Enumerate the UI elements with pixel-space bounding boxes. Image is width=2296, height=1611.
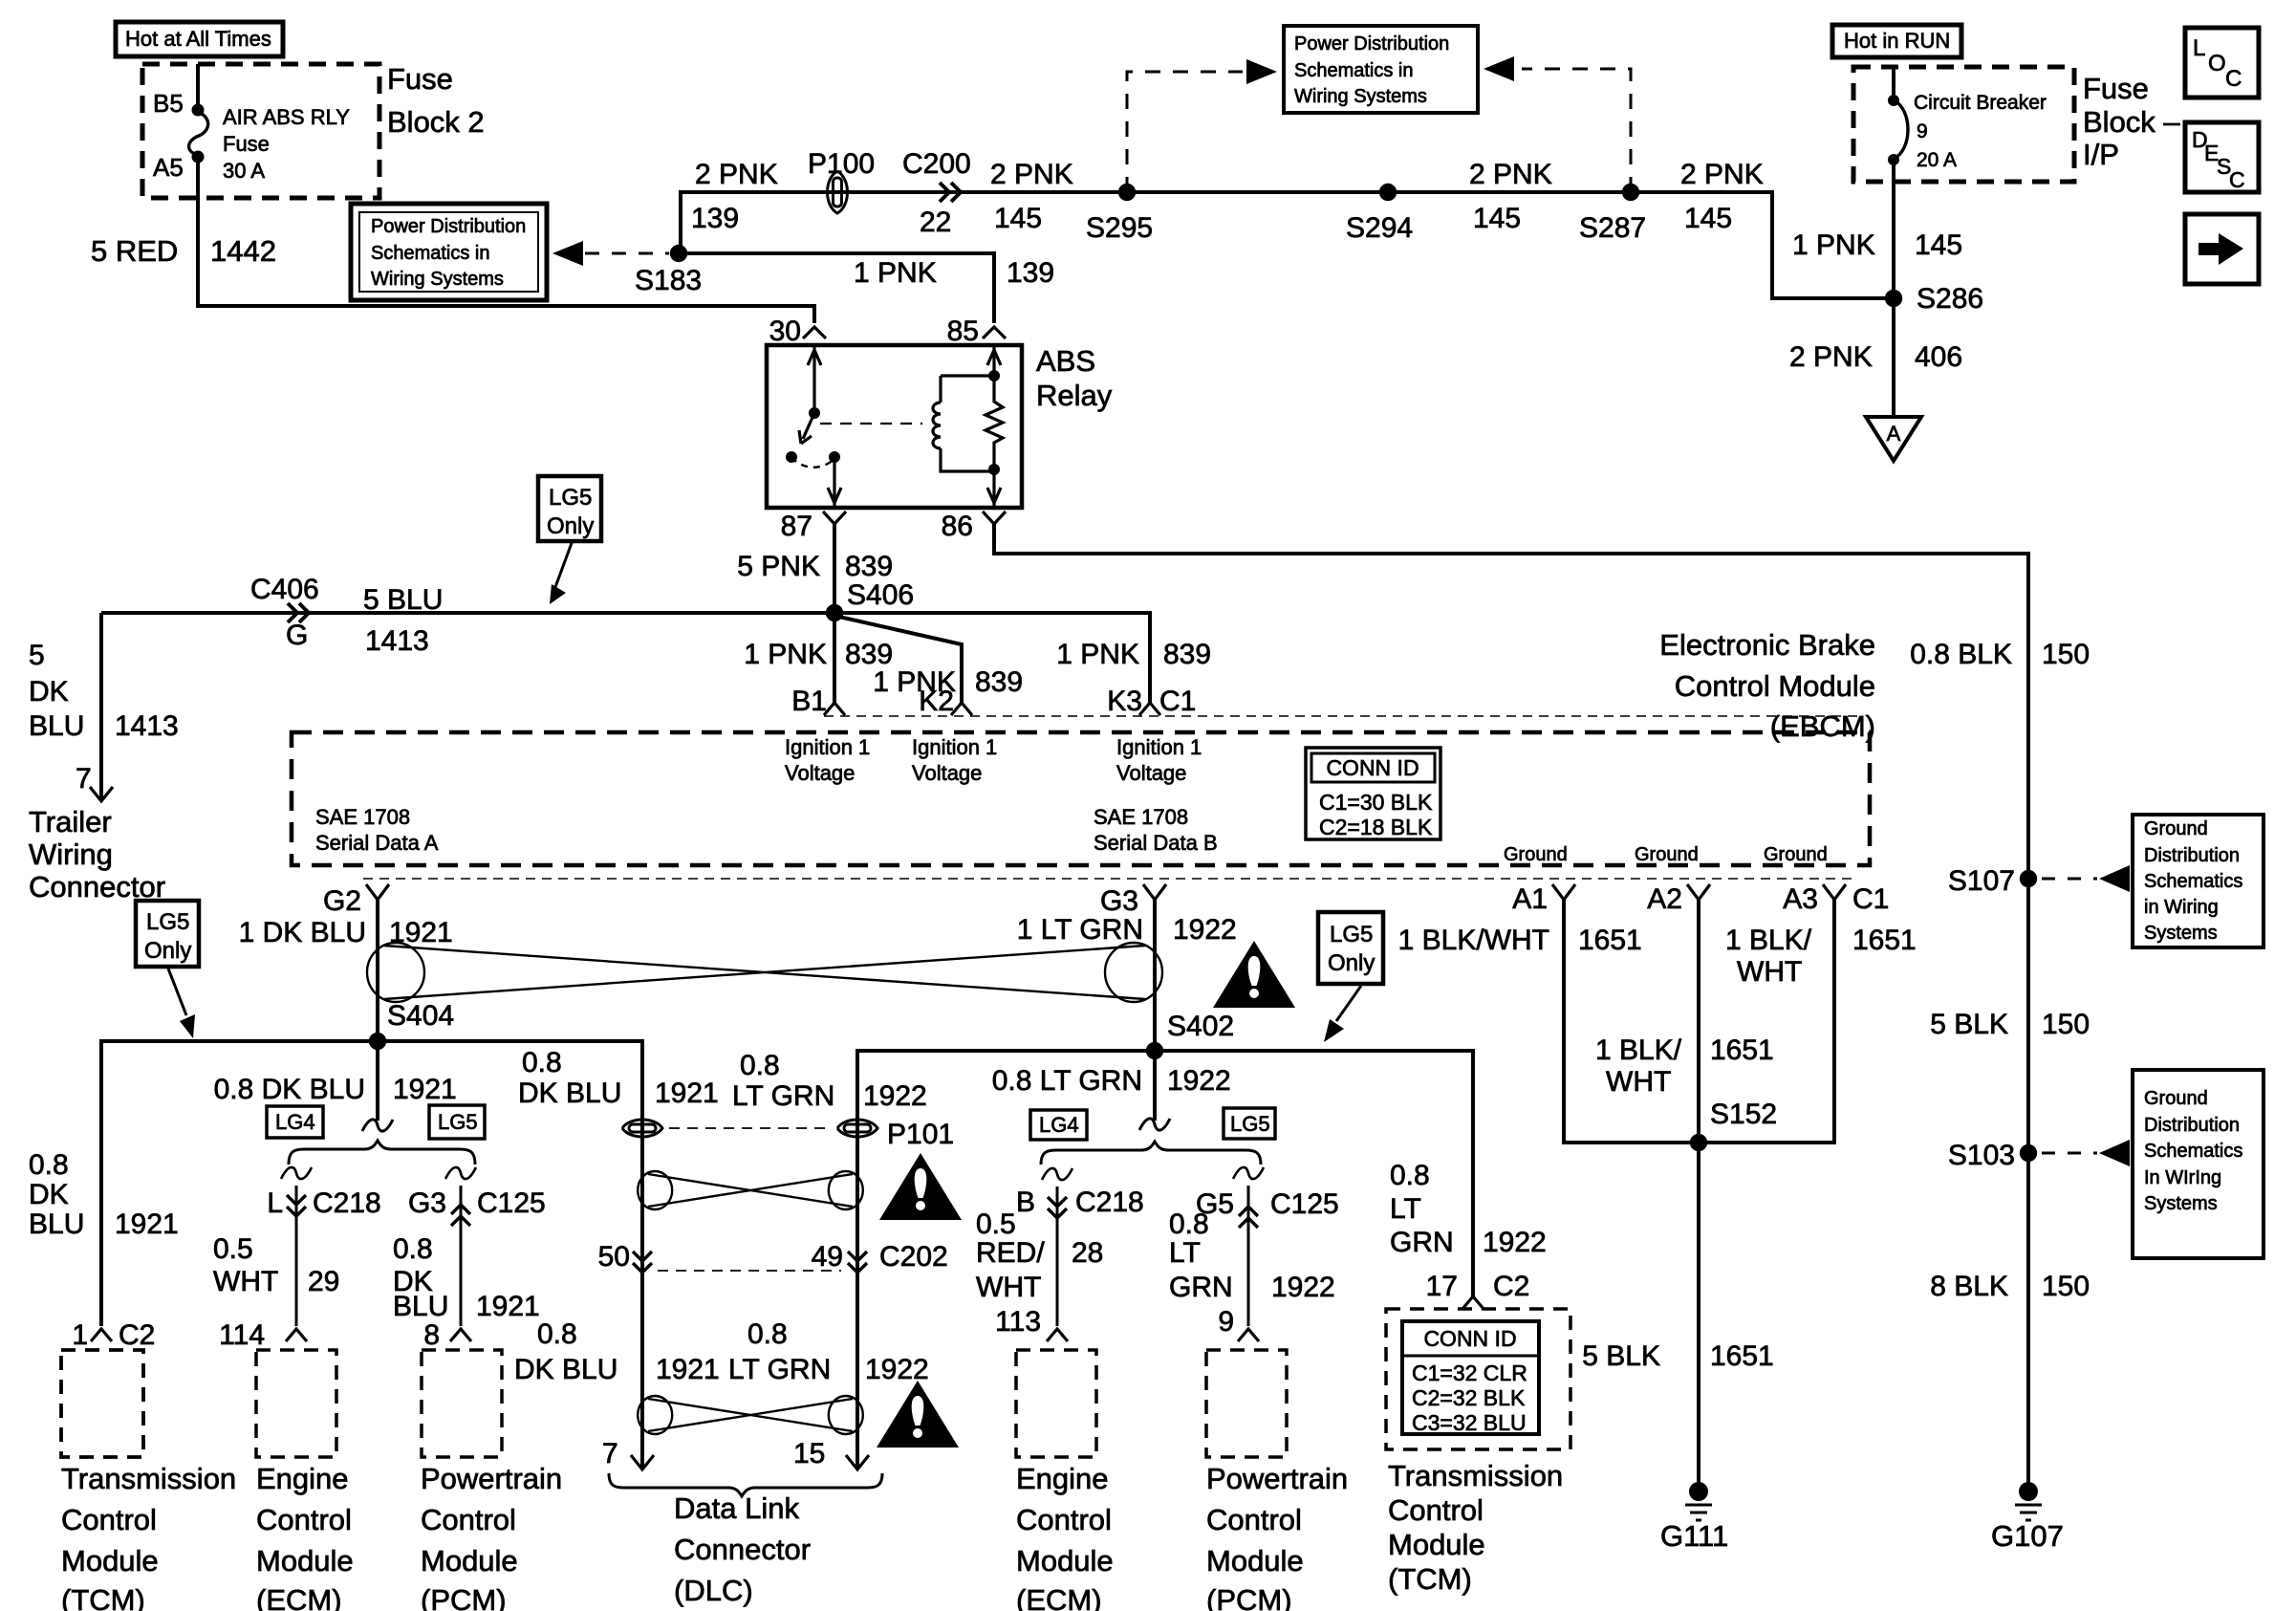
svg-text:Voltage: Voltage: [912, 761, 982, 785]
svg-text:Control: Control: [61, 1503, 157, 1536]
svg-text:B5: B5: [153, 89, 184, 118]
pin A2: [1687, 884, 1710, 900]
svg-text:Module: Module: [61, 1544, 159, 1578]
svg-text:Ground: Ground: [2144, 818, 2208, 839]
svg-text:1921: 1921: [656, 1354, 720, 1385]
svg-text:Hot in RUN: Hot in RUN: [1844, 29, 1950, 53]
wire 1 PNK 839 S406 to EBCM B1: [833, 613, 836, 703]
svg-text:839: 839: [845, 551, 893, 582]
svg-text:22: 22: [920, 207, 951, 238]
svg-text:Circuit Breaker: Circuit Breaker: [1914, 92, 2047, 114]
svg-text:Schematics: Schematics: [2144, 871, 2242, 892]
svg-text:0.5: 0.5: [213, 1233, 253, 1265]
svg-text:Engine: Engine: [1016, 1462, 1109, 1495]
brace splitting LG4/LG5 (left): [289, 1141, 475, 1165]
svg-text:Control Module: Control Module: [1675, 669, 1875, 703]
svg-text:20 A: 20 A: [1917, 149, 1957, 171]
label box LG4 (right pair): [1030, 1110, 1087, 1140]
svg-text:in Wiring: in Wiring: [2144, 897, 2219, 918]
svg-text:1922: 1922: [1271, 1272, 1335, 1303]
off-page connector triangle A: [1866, 417, 1921, 461]
svg-text:Fuse: Fuse: [387, 62, 453, 96]
svg-text:A2: A2: [1647, 883, 1682, 915]
PCM branch squiggle: [445, 1167, 476, 1179]
label box LG5 Only (left): [136, 901, 199, 967]
svg-text:2 PNK: 2 PNK: [1680, 159, 1764, 190]
svg-text:9: 9: [1218, 1306, 1234, 1338]
svg-text:B1: B1: [791, 686, 827, 717]
svg-text:Transmission: Transmission: [61, 1462, 236, 1495]
junction S406: [826, 604, 843, 621]
wire S152 to G111: [1697, 1143, 1700, 1488]
svg-text:DK BLU: DK BLU: [518, 1078, 621, 1109]
svg-text:1 BLK/WHT: 1 BLK/WHT: [1398, 925, 1549, 956]
svg-text:Wiring Systems: Wiring Systems: [371, 269, 504, 290]
label box LG5 (left pair): [429, 1105, 485, 1139]
svg-text:87: 87: [781, 511, 812, 542]
svg-text:7: 7: [76, 763, 92, 795]
svg-text:LG5: LG5: [438, 1110, 478, 1134]
svg-text:C200: C200: [902, 148, 971, 180]
svg-text:Only: Only: [547, 513, 594, 539]
relay coupling dashed line: [820, 423, 922, 425]
wire to PCM pin via C125: [460, 1186, 463, 1326]
svg-text:(EBCM): (EBCM): [1770, 709, 1875, 743]
ECM branch squiggle: [281, 1167, 312, 1179]
svg-text:G3: G3: [1100, 885, 1138, 917]
svg-text:0.8: 0.8: [393, 1233, 433, 1265]
svg-text:Distribution: Distribution: [2144, 1115, 2240, 1136]
svg-text:WHT: WHT: [213, 1266, 278, 1297]
wire 5 PNK 839 relay 87 to S406: [833, 524, 836, 613]
relay switch armature: [799, 413, 814, 444]
svg-text:G107: G107: [1991, 1519, 2064, 1553]
PCM dashed box: [422, 1350, 502, 1457]
svg-text:1 PNK: 1 PNK: [744, 639, 827, 670]
svg-text:0.8: 0.8: [522, 1047, 562, 1078]
svg-text:Control: Control: [1388, 1493, 1484, 1527]
C202 dashed pass-through line: [658, 1270, 841, 1272]
wire S183 to relay pin 85: [681, 253, 994, 323]
svg-text:(PCM): (PCM): [1206, 1583, 1292, 1611]
svg-text:S183: S183: [635, 265, 702, 296]
svg-text:(PCM): (PCM): [421, 1583, 507, 1611]
svg-text:K2: K2: [919, 686, 954, 717]
svg-text:C1: C1: [1159, 686, 1196, 717]
wire A1 to S152: [1564, 900, 1699, 1143]
svg-text:DK: DK: [29, 676, 69, 708]
svg-text:Distribution: Distribution: [2144, 845, 2240, 866]
svg-text:Engine: Engine: [256, 1462, 349, 1495]
wire G3 to S402: [1153, 900, 1157, 1051]
svg-text:Electronic Brake: Electronic Brake: [1659, 628, 1875, 662]
svg-text:I/P: I/P: [2083, 138, 2119, 171]
svg-text:LG4: LG4: [1039, 1113, 1079, 1137]
svg-text:17: 17: [1426, 1271, 1458, 1302]
svg-text:9: 9: [1917, 120, 1928, 142]
ground G111: [1689, 1482, 1708, 1501]
svg-text:Fuse: Fuse: [223, 132, 270, 156]
svg-text:Ground: Ground: [2144, 1088, 2208, 1109]
fuse block I/P dashed box: [1853, 67, 2074, 182]
svg-text:LG4: LG4: [275, 1110, 315, 1134]
svg-text:0.8: 0.8: [1169, 1208, 1209, 1240]
pin A1: [1552, 884, 1575, 900]
twisted pair DLC lower: [648, 1399, 853, 1431]
svg-text:8: 8: [423, 1319, 440, 1351]
pin A3: [1823, 884, 1846, 900]
svg-text:DK: DK: [29, 1179, 69, 1210]
ground G107: [2019, 1482, 2038, 1501]
svg-text:O: O: [2208, 51, 2226, 76]
svg-text:(ECM): (ECM): [256, 1583, 342, 1611]
relay pin 86 internal lead: [987, 471, 1001, 508]
svg-text:Trailer: Trailer: [29, 805, 112, 838]
ground distribution reference box (upper): [2133, 815, 2264, 947]
wire 2 PNK 139 main feed: [679, 190, 1774, 194]
svg-text:8 BLK: 8 BLK: [1930, 1271, 2008, 1302]
wire 2 PNK 406 to off-page A: [1892, 298, 1895, 415]
svg-text:Hot at All Times: Hot at All Times: [125, 27, 271, 51]
PCM2 dashed box: [1206, 1350, 1287, 1457]
svg-text:G: G: [286, 620, 308, 651]
svg-text:K3: K3: [1107, 686, 1142, 717]
svg-text:Control: Control: [421, 1503, 516, 1536]
junction S404: [369, 1033, 386, 1050]
svg-text:WHT: WHT: [1606, 1066, 1671, 1098]
in-line connector C125 (to PCM right): [1239, 1207, 1258, 1228]
ECM2 branch squiggle: [1042, 1168, 1072, 1180]
svg-text:S287: S287: [1579, 212, 1646, 244]
svg-text:S295: S295: [1086, 212, 1153, 244]
wire S404 right branch to DLC pin 50: [378, 1041, 642, 1469]
svg-text:C2=18 BLK: C2=18 BLK: [1319, 815, 1433, 839]
svg-text:Ignition 1: Ignition 1: [1116, 735, 1202, 759]
svg-text:150: 150: [2042, 639, 2090, 670]
svg-text:G3: G3: [408, 1187, 446, 1219]
svg-text:0.8: 0.8: [740, 1050, 780, 1081]
junction S402: [1146, 1042, 1163, 1059]
svg-text:1922: 1922: [865, 1354, 929, 1385]
reference box DESC: [2185, 122, 2259, 192]
svg-text:G111: G111: [1660, 1519, 1728, 1553]
reference box forward arrow: [2185, 214, 2259, 284]
relay coil: [939, 376, 942, 403]
relay U1 ABS Relay box: [767, 345, 1022, 508]
warning triangle (serial data B): [1213, 941, 1295, 1008]
svg-text:S152: S152: [1710, 1099, 1777, 1130]
svg-text:1922: 1922: [863, 1080, 927, 1112]
svg-text:0.8: 0.8: [537, 1318, 577, 1350]
svg-text:S107: S107: [1948, 865, 2015, 897]
twisted pair DLC upper: [648, 1174, 853, 1207]
svg-text:145: 145: [1473, 203, 1521, 234]
EBCM dashed box: [292, 732, 1870, 865]
svg-text:1413: 1413: [115, 710, 179, 742]
svg-text:P101: P101: [887, 1119, 954, 1150]
svg-text:LT GRN: LT GRN: [728, 1354, 831, 1385]
svg-text:BLU: BLU: [29, 710, 84, 742]
svg-text:L: L: [2193, 35, 2205, 61]
svg-text:1651: 1651: [1710, 1034, 1774, 1066]
svg-text:C1: C1: [1852, 883, 1889, 915]
svg-text:0.8: 0.8: [1390, 1160, 1430, 1191]
circuit breaker 9 20A symbol: [1892, 67, 1895, 98]
relay coil suppression resistor: [986, 376, 1003, 471]
svg-text:S103: S103: [1948, 1140, 2015, 1171]
svg-text:29: 29: [308, 1266, 339, 1297]
svg-text:1 PNK: 1 PNK: [854, 257, 937, 289]
pin 87 connector below relay: [823, 512, 846, 524]
arrow from LG5 Only to TCM2 wire: [1336, 986, 1361, 1021]
arrow from LG5 Only to left branch wire: [168, 969, 186, 1015]
junction S295: [1118, 184, 1136, 201]
svg-text:(TCM): (TCM): [61, 1583, 145, 1611]
in-line connector C218 (to ECM right): [1048, 1197, 1067, 1218]
warning triangle (DLC lower): [877, 1381, 959, 1448]
svg-text:P100: P100: [808, 148, 875, 180]
svg-text:C406: C406: [250, 574, 319, 605]
wire S402 left branch to DLC pin 49: [857, 1051, 1155, 1469]
wire riser S183 to main pink feed: [679, 192, 682, 253]
TCM dashed box: [61, 1350, 143, 1457]
svg-text:C2=32 BLK: C2=32 BLK: [1412, 1385, 1526, 1410]
svg-text:1 BLK/: 1 BLK/: [1595, 1034, 1682, 1066]
svg-text:839: 839: [975, 666, 1023, 698]
label box LG5 Only (right): [1318, 912, 1383, 984]
svg-text:C1=32 CLR: C1=32 CLR: [1412, 1361, 1527, 1385]
TCM2 dashed box: [1386, 1309, 1570, 1449]
reference box LOC: [2185, 28, 2259, 98]
svg-text:G2: G2: [323, 885, 361, 917]
svg-text:CONN ID: CONN ID: [1326, 755, 1419, 780]
label box LG5 (right pair): [1224, 1108, 1275, 1139]
svg-text:Voltage: Voltage: [785, 761, 855, 785]
svg-text:1651: 1651: [1710, 1340, 1774, 1372]
brace splitting LG4/LG5 (right): [1041, 1142, 1261, 1165]
EBCM connector face dashed line (top): [824, 715, 1864, 717]
svg-text:30: 30: [769, 316, 801, 347]
svg-text:A: A: [1887, 422, 1901, 446]
svg-text:Systems: Systems: [2144, 1193, 2218, 1214]
dashed reference arrow from S183 to power distribution box: [552, 241, 583, 266]
svg-text:Transmission: Transmission: [1388, 1459, 1563, 1492]
svg-text:1413: 1413: [365, 625, 429, 657]
connector grommet P100: [828, 171, 848, 213]
svg-text:Schematics in: Schematics in: [1294, 60, 1414, 81]
svg-text:Data Link: Data Link: [674, 1491, 799, 1525]
svg-text:S294: S294: [1346, 212, 1413, 244]
svg-text:7: 7: [602, 1438, 618, 1469]
PCM2 branch squiggle: [1233, 1167, 1264, 1179]
wire S404 left branch to TCM pin 1/C2: [101, 1041, 378, 1326]
svg-text:A1: A1: [1512, 883, 1548, 915]
svg-text:B: B: [1016, 1186, 1035, 1218]
CONN ID table for TCM: [1402, 1321, 1539, 1434]
wire 5 BLU 1413 C406 to S406: [101, 613, 1150, 703]
svg-text:1921: 1921: [655, 1078, 719, 1109]
svg-text:Serial Data A: Serial Data A: [315, 831, 439, 855]
wire to PCM pin G5 via C125: [1247, 1186, 1250, 1326]
relay pin 87 internal lead: [828, 457, 841, 508]
svg-text:1921: 1921: [115, 1208, 179, 1240]
svg-text:Relay: Relay: [1036, 379, 1113, 412]
svg-text:5 BLK: 5 BLK: [1582, 1340, 1660, 1372]
svg-text:150: 150: [2042, 1271, 2090, 1302]
wire to ECM pin via C218: [295, 1186, 298, 1326]
svg-text:1442: 1442: [210, 234, 276, 268]
svg-text:C: C: [2229, 167, 2245, 192]
svg-text:5 RED: 5 RED: [91, 234, 178, 268]
label box LG4 (left pair): [267, 1106, 323, 1138]
svg-text:A5: A5: [153, 153, 184, 182]
svg-text:2 PNK: 2 PNK: [1469, 159, 1552, 190]
ECM dashed box: [256, 1350, 336, 1457]
svg-text:1651: 1651: [1578, 925, 1642, 956]
wire A3/C1 to S152: [1699, 900, 1834, 1143]
svg-text:BLU: BLU: [393, 1291, 448, 1322]
junction S107: [2020, 870, 2037, 887]
svg-text:C218: C218: [313, 1187, 381, 1219]
wire to ECM pin B via C218: [1056, 1186, 1059, 1326]
CONN ID table for EBCM: [1306, 748, 1440, 839]
svg-text:C218: C218: [1075, 1186, 1144, 1218]
svg-text:0.8 DK BLU: 0.8 DK BLU: [214, 1074, 365, 1105]
svg-text:Schematics: Schematics: [2144, 1141, 2242, 1162]
svg-text:Ignition 1: Ignition 1: [912, 735, 997, 759]
svg-text:2 PNK: 2 PNK: [1789, 341, 1873, 373]
svg-text:15: 15: [793, 1438, 825, 1469]
svg-text:0.8: 0.8: [747, 1318, 788, 1350]
svg-text:1922: 1922: [1167, 1065, 1231, 1097]
P101 dashed pass-through line: [669, 1127, 832, 1129]
junction S183: [670, 245, 687, 262]
svg-text:GRN: GRN: [1390, 1227, 1454, 1258]
warning triangle (C202): [879, 1153, 962, 1220]
svg-text:Only: Only: [1328, 950, 1375, 976]
svg-text:Power Distribution: Power Distribution: [1294, 33, 1449, 54]
pin G3: [1143, 884, 1166, 900]
svg-text:Powertrain: Powertrain: [1206, 1462, 1348, 1495]
svg-text:Power Distribution: Power Distribution: [371, 216, 526, 237]
svg-text:C1=30 BLK: C1=30 BLK: [1319, 790, 1433, 815]
svg-text:113: 113: [995, 1306, 1041, 1338]
dashed reference riser from S287 to power distribution box: [1522, 69, 1631, 192]
svg-text:SAE 1708: SAE 1708: [1094, 805, 1188, 829]
in-line connector C200 pin 22: [940, 183, 961, 202]
svg-text:S286: S286: [1917, 283, 1983, 315]
svg-text:150: 150: [2042, 1009, 2090, 1040]
EBCM connector face dashed line (bottom): [363, 878, 1854, 880]
svg-text:Ignition 1: Ignition 1: [785, 735, 870, 759]
svg-text:SAE 1708: SAE 1708: [315, 805, 410, 829]
wire 2 PNK to S286: [1772, 192, 1897, 298]
svg-text:0.5: 0.5: [976, 1208, 1016, 1240]
svg-text:86: 86: [942, 511, 973, 542]
power distribution reference box (left): [351, 204, 547, 300]
svg-text:LG5: LG5: [146, 909, 189, 935]
wire right ground bus S107 to S103 to G107: [2026, 879, 2030, 1488]
svg-text:139: 139: [1007, 257, 1054, 289]
svg-text:1: 1: [72, 1319, 88, 1351]
svg-text:Powertrain: Powertrain: [421, 1462, 562, 1495]
svg-text:5 BLK: 5 BLK: [1930, 1009, 2008, 1040]
svg-text:Ground: Ground: [1635, 844, 1699, 865]
svg-text:Ground: Ground: [1504, 844, 1568, 865]
svg-text:ABS: ABS: [1036, 344, 1095, 378]
svg-text:Schematics in: Schematics in: [371, 243, 490, 264]
svg-text:LT: LT: [1390, 1193, 1421, 1225]
svg-text:C3=32 BLU: C3=32 BLU: [1412, 1410, 1527, 1435]
junction S103: [2020, 1144, 2037, 1162]
svg-text:GRN: GRN: [1169, 1272, 1233, 1303]
svg-text:145: 145: [1915, 229, 1962, 261]
svg-text:5: 5: [29, 640, 45, 671]
svg-text:1651: 1651: [1852, 925, 1917, 956]
DLC brace: [609, 1473, 882, 1496]
svg-text:Block 2: Block 2: [387, 105, 485, 139]
svg-text:1921: 1921: [393, 1074, 457, 1105]
twisted pair G2-G3 crossover: [384, 946, 1145, 999]
connector grommet P101 (left wire): [622, 1120, 662, 1137]
svg-text:1 DK BLU: 1 DK BLU: [239, 917, 366, 948]
relay pin 85 internal lead: [987, 345, 1001, 376]
svg-text:2 PNK: 2 PNK: [695, 159, 778, 190]
svg-text:(ECM): (ECM): [1016, 1583, 1102, 1611]
svg-text:145: 145: [994, 203, 1042, 234]
dashed reference arrow S107 to ground distribution box: [2042, 878, 2097, 881]
power distribution reference box (top): [1284, 26, 1478, 113]
svg-text:In WIrIng: In WIrIng: [2144, 1167, 2221, 1188]
wire 5 DK BLU 1413 to trailer connector: [99, 613, 103, 801]
svg-text:LT GRN: LT GRN: [732, 1080, 834, 1112]
svg-text:Connector: Connector: [674, 1533, 811, 1566]
svg-text:A3: A3: [1783, 883, 1818, 915]
svg-text:S404: S404: [387, 1000, 454, 1032]
connector grommet P101 (right wire): [837, 1120, 877, 1137]
svg-text:BLU: BLU: [29, 1208, 84, 1240]
svg-text:C: C: [2225, 66, 2242, 92]
svg-text:30 A: 30 A: [223, 159, 265, 183]
svg-text:406: 406: [1915, 341, 1962, 373]
svg-text:145: 145: [1684, 203, 1732, 234]
svg-text:C125: C125: [1270, 1188, 1339, 1220]
svg-text:(DLC): (DLC): [674, 1574, 753, 1607]
svg-text:1922: 1922: [1483, 1227, 1547, 1258]
svg-text:LG5: LG5: [1230, 1112, 1270, 1136]
svg-text:C2: C2: [119, 1319, 155, 1351]
svg-text:49: 49: [812, 1241, 843, 1273]
arrow from LG5 Only to 5 BLU wire: [555, 543, 572, 587]
svg-text:Control: Control: [1206, 1503, 1302, 1536]
relay switch throw dashed arc to pin 87: [791, 457, 834, 468]
svg-text:L: L: [267, 1187, 283, 1219]
wire break squiggle on S402 drop: [1139, 1119, 1170, 1130]
junction S294: [1379, 184, 1397, 201]
svg-text:1 PNK: 1 PNK: [1792, 229, 1875, 261]
svg-text:Fuse: Fuse: [2083, 72, 2149, 105]
svg-text:LG5: LG5: [549, 485, 592, 511]
svg-text:Module: Module: [1388, 1528, 1485, 1561]
wire 1 PNK 839 S406 to EBCM K2 (diagonal): [834, 616, 962, 703]
svg-text:Module: Module: [421, 1544, 518, 1578]
svg-text:5 BLU: 5 BLU: [363, 584, 443, 616]
junction S286: [1885, 290, 1902, 307]
ground distribution reference box (lower): [2133, 1070, 2264, 1258]
svg-text:28: 28: [1072, 1237, 1103, 1269]
junction S152: [1690, 1134, 1707, 1151]
svg-text:Wiring: Wiring: [29, 838, 113, 871]
